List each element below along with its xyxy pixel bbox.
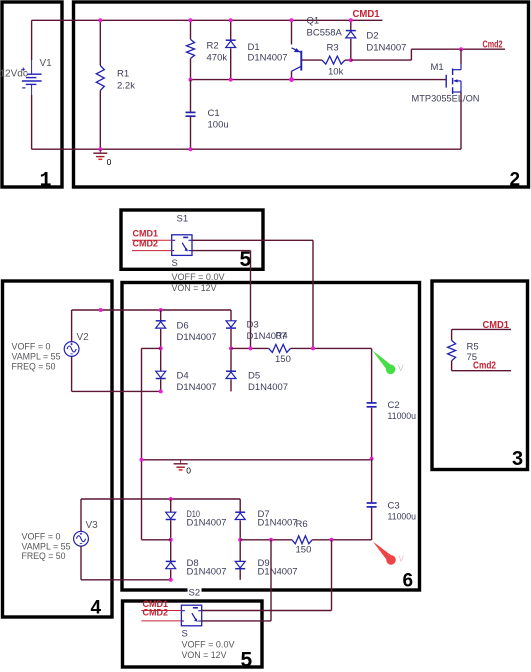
label CMD1 (S1) [133,228,159,238]
svg-text:D1N4007: D1N4007 [187,518,227,529]
svg-text:2: 2 [510,170,521,191]
svg-text:D1: D1 [248,42,260,53]
svg-text:R3: R3 [327,43,339,54]
label D8 [187,558,199,569]
svg-text:5: 5 [241,649,253,672]
label S1 [177,214,189,225]
label C1 [208,108,229,131]
wire bridge2 top rail [171,498,241,500]
label S1 VON [172,283,218,293]
svg-text:D1N4007: D1N4007 [187,567,227,578]
label S2 [189,588,201,599]
label V1 [40,58,53,69]
svg-text:R4: R4 [276,331,288,342]
wire V2 plus [72,310,161,342]
label 0 (box 6 ground) [186,466,191,476]
resistor R1 [96,20,104,149]
wire CMD1 to S2 [141,610,181,612]
svg-text:M1: M1 [431,62,444,73]
svg-text:VOFF = 0.0V: VOFF = 0.0V [182,640,236,650]
wire S2 pin2 riser [270,540,272,621]
wire R4 right to C2 [290,347,371,349]
probe V+ (green) [372,350,395,374]
resistor R6 [292,536,312,544]
diode D10 [166,499,176,540]
svg-text:R1: R1 [117,69,129,80]
switch S2 [181,605,201,626]
wire bridge2 midright to R6 [240,539,292,541]
box number 3 [512,448,523,470]
diode D2 [346,20,356,60]
junction mid rail Q1 collector [289,77,294,82]
diode D4 [156,348,166,391]
svg-text:D5: D5 [248,371,260,382]
svg-text:1: 1 [40,170,52,193]
wire R6 right to C3 [312,539,371,541]
label V3 FREQ [22,551,66,562]
label V (green probe) [398,364,404,373]
svg-text:2.2k: 2.2k [117,81,135,92]
svg-text:VON = 12V: VON = 12V [182,650,228,660]
wire bottom rail (0V) [32,148,461,150]
source V3 [74,531,89,546]
label 75 (R5) [467,352,478,363]
svg-text:100u: 100u [208,120,229,131]
wire V2 minus [72,357,161,392]
wire V3 plus [81,499,171,531]
svg-text:R2: R2 [207,41,219,52]
svg-text:11000u: 11000u [388,411,417,422]
box number 2 [510,170,521,191]
label Cmd2 (box 2) [483,40,503,51]
junction ground riser [140,458,144,462]
frame box 6 [122,283,420,591]
wire M1 source down [460,92,462,149]
label D1N4007 (D2) [366,43,406,54]
label D1N4007 (D4) [177,382,217,393]
wire S1 pin1 riser [312,240,314,348]
wire bridge2 midleft to gnd riser [142,539,171,541]
box number 5 bottom [241,649,253,672]
svg-text:CMD2: CMD2 [143,608,169,618]
wire M1 drain [460,49,462,64]
capacitor C1 [186,80,196,150]
label BC558A [307,28,343,39]
resistor R5 [448,329,456,370]
capacitor C2 [367,348,377,458]
svg-text:D1N4007: D1N4007 [248,53,288,64]
label V (red probe) [399,555,405,564]
label D1N4007 (D9) [258,567,298,578]
junction bridge1 bottom-left [159,389,163,393]
svg-text:R5: R5 [467,342,479,353]
wire S2 pin1 right [202,610,332,612]
svg-text:V: V [398,364,404,373]
label 12Vdc [0,69,28,80]
svg-text:D1N4007: D1N4007 [248,382,288,393]
diode D7 [235,499,245,540]
label R3 [327,43,339,54]
label D1N4007 (D5) [248,382,288,393]
label D9 [258,558,270,569]
junction mid rail R2/C1 [189,78,193,82]
svg-text:V3: V3 [86,520,99,531]
label R5 [467,342,479,353]
wire Cmd2 net (box 3) [452,370,511,372]
svg-text:CMD1: CMD1 [483,320,510,331]
label V3 VAMPL [22,542,71,553]
box number 4 [91,598,102,619]
label R4 [276,331,288,342]
junction mid rail D1 [229,78,233,82]
label D1N4007 (D8) [187,567,227,578]
frame box 2 [74,2,529,187]
ground 0 (box 2) [93,149,107,159]
box number 5 top [240,248,252,271]
junction bottom rail C1 [189,147,193,151]
label C2 [388,400,400,411]
frame box 5 top (S1) [121,210,263,269]
svg-text:D1N4007: D1N4007 [366,43,406,54]
junction top rail R2 [189,18,193,22]
svg-text:BC558A: BC558A [307,28,343,39]
label 150 (R4) [275,354,291,365]
diode D6 [156,310,166,348]
label V3 [86,520,99,531]
label MTP3055EL/ON [412,94,480,105]
svg-text:C2: C2 [388,400,400,411]
junction C2/C3 ground [370,457,374,461]
svg-text:D4: D4 [177,371,189,382]
svg-text:11000u: 11000u [388,512,417,523]
label S2 VON [182,650,228,660]
label Cmd2 (box 3) [473,361,496,372]
svg-text:10k: 10k [328,67,344,78]
box number 1 [40,170,52,193]
junction D2/R3 node [349,58,353,62]
diode D3 [226,310,236,348]
junction bridge1 top-left [159,308,163,312]
label D4 [177,371,189,382]
frame box 3 [432,281,528,470]
diode D9 [235,540,245,580]
label D1N4007 (D3) [247,331,287,342]
junction V2 wire [99,308,103,312]
junction bridge1 mid-left [159,346,163,350]
frame box 4 [3,281,113,617]
source V2 [64,342,79,357]
label CMD2 (S1) [133,239,159,249]
mosfet M1 [446,64,461,94]
svg-text:D1N4007: D1N4007 [177,332,217,343]
junction bridge2 mid-left [169,538,173,542]
label S (S1 model) [172,258,178,269]
svg-text:D1N4007: D1N4007 [258,567,298,578]
wire CMD2 to S2 [141,620,181,622]
svg-text:D1N4007: D1N4007 [177,382,217,393]
diode D1 [226,20,236,79]
label V3 VOFF [22,532,61,543]
label V2 FREQ [12,362,56,373]
wire D2 node to Cmd2 step [351,49,505,60]
svg-text:C3: C3 [388,501,400,512]
svg-text:S: S [172,258,178,269]
label R1 [117,69,135,92]
wire top rail (V1+ to CMD1) [32,19,383,21]
ground 0 (box 6) [174,460,188,470]
label D1N4007 (D10) [187,518,227,529]
label S (S2 model) [182,629,188,640]
frame box 5 bottom (S2) [123,601,263,667]
label D6 [177,321,189,332]
label R2 [207,41,228,64]
wire CMD2 to S1 [132,250,172,252]
label D5 [248,371,260,382]
svg-text:150: 150 [275,354,291,365]
junction R4 right (S1) [311,346,315,350]
diode D5 [226,348,236,391]
wire S2 pin1 riser [331,540,333,611]
label 11000u (C2) [388,411,417,422]
label D10 [187,509,201,520]
svg-text:V: V [399,555,405,564]
svg-text:Cmd2: Cmd2 [473,361,496,372]
svg-text:D6: D6 [177,321,189,332]
junction R4 left (S1) [249,346,253,350]
label CMD1 (S2) [143,599,169,609]
label CMD1 (box 3) [483,320,510,331]
svg-text:Q1: Q1 [307,16,320,27]
svg-text:3: 3 [512,448,523,470]
label 0 (box 2 ground) [107,157,112,167]
label D1N4007 (D6) [177,332,217,343]
label D1N4007 (D7) [258,518,298,529]
label S2 VOFF [182,640,236,650]
junction top rail D2 [349,18,353,22]
wire bridge1 top rail [161,309,231,311]
svg-text:12Vdc: 12Vdc [0,69,28,80]
wire CMD1 to S1 [132,239,172,241]
svg-text:VOFF = 0.0V: VOFF = 0.0V [172,272,226,282]
wire mid rail [191,79,447,81]
wire V3 minus [81,546,171,580]
S2 label background [188,588,202,597]
svg-text:S: S [182,629,188,640]
svg-text:CMD2: CMD2 [133,239,159,249]
svg-text:VON = 12V: VON = 12V [172,283,218,293]
label 11000u (C3) [388,512,417,523]
junction bridge2 mid-right [238,538,242,542]
label D3 [247,320,259,331]
junction R6 left (S2) [269,538,273,542]
svg-text:S1: S1 [177,214,189,225]
label C3 [388,501,400,512]
wire bridge1 midleft to gnd riser [142,348,161,539]
svg-text:R6: R6 [296,519,308,530]
label 10k [328,67,344,78]
label S1 VOFF [172,272,226,282]
junction bridge1 mid-right [229,346,233,350]
wire S1 pin1 right [192,239,313,241]
battery V1 [22,20,42,149]
label V2 VOFF [12,342,51,353]
wire Q1 base to R3 [302,59,322,61]
resistor R4 [269,344,291,352]
label D2 [366,31,378,42]
svg-text:Cmd2: Cmd2 [483,40,503,51]
junction top rail R1 [98,18,102,22]
svg-text:D1N4007: D1N4007 [258,518,298,529]
label D1 [248,42,288,64]
frame box 1 [2,2,62,187]
svg-text:V1: V1 [40,58,53,69]
svg-text:S2: S2 [189,588,201,599]
label R6 [296,519,308,530]
resistor R3 [322,56,351,64]
capacitor C3 [367,459,377,540]
svg-text:MTP3055EL/ON: MTP3055EL/ON [412,94,480,105]
svg-text:CMD1: CMD1 [353,9,380,20]
junction bridge2 top-left [169,497,173,501]
svg-text:CMD1: CMD1 [133,228,159,238]
wire S2 pin2 right [202,620,271,622]
svg-text:C1: C1 [208,108,220,119]
svg-text:D2: D2 [366,31,378,42]
svg-text:5: 5 [240,248,252,271]
box number 6 [403,571,414,592]
svg-text:FREQ = 50: FREQ = 50 [12,362,56,373]
svg-text:D3: D3 [247,320,259,331]
switch S1 [172,235,192,256]
svg-text:0: 0 [186,466,191,476]
label V2 [77,332,90,343]
probe V- (red) [373,542,396,565]
svg-text:470k: 470k [207,53,228,64]
label M1 [431,62,444,73]
label D7 [258,509,270,520]
junction Cmd2/M1 drain [459,47,463,51]
label 150 (R6) [296,545,312,556]
transistor Q1 [292,20,302,79]
wire S1 pin2 riser [250,251,252,349]
svg-text:6: 6 [403,571,414,592]
ground rail (box 6) [142,459,372,461]
junction bridge2 bottom-left [169,578,173,582]
resistor R2 [187,20,195,79]
svg-text:4: 4 [91,598,102,619]
junction top rail D1 [229,18,233,22]
junction R6 right (S2) [330,538,334,542]
junction bottom rail R1 [98,147,102,151]
wire bridge1 midright to R4 [231,347,269,349]
label CMD2 (S2) [143,608,169,618]
wire S1 pin2 right [192,250,251,252]
svg-text:V2: V2 [77,332,90,343]
junction top rail Q1 emitter [290,18,294,22]
label V2 VAMPL [12,352,61,363]
svg-text:FREQ = 50: FREQ = 50 [22,551,66,562]
svg-text:150: 150 [296,545,312,556]
diode D8 [166,540,176,580]
label CMD1 (box 2) [353,9,380,20]
svg-text:0: 0 [107,157,112,167]
wire CMD1 net (box 3) [452,328,511,330]
label Q1 [307,16,320,27]
